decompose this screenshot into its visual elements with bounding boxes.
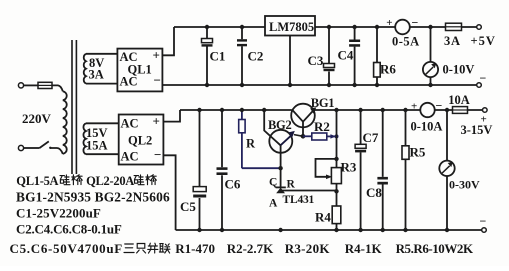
svg-text:15A: 15A bbox=[86, 139, 108, 153]
svg-text:0-30V: 0-30V bbox=[449, 178, 480, 192]
svg-text:LM7805: LM7805 bbox=[269, 20, 314, 34]
svg-text:10A: 10A bbox=[448, 93, 470, 107]
svg-text:C7: C7 bbox=[363, 130, 379, 145]
ammeter A2 0-10A bbox=[420, 103, 434, 117]
wire top rail left segment bbox=[174, 26, 265, 28]
svg-text:R3-20K: R3-20K bbox=[285, 241, 331, 256]
secondary winding 15V 15A bbox=[83, 123, 86, 154]
glyph 联 (line5) bbox=[159, 244, 170, 253]
wire QL2 - drop bbox=[163, 155, 175, 230]
svg-text:0-10V: 0-10V bbox=[443, 63, 475, 77]
transistor BG2 bbox=[269, 130, 292, 153]
wire LM7805 GND pin bbox=[289, 36, 291, 86]
potentiometer R3 bbox=[331, 168, 341, 184]
wire QL2 + riser bbox=[163, 110, 180, 122]
wire top rail after ammeter bbox=[410, 26, 477, 28]
svg-text:3A: 3A bbox=[89, 68, 104, 82]
svg-text:C5.C6-50V4700uF: C5.C6-50V4700uF bbox=[10, 241, 123, 256]
switch K bbox=[40, 141, 49, 148]
svg-text:R1-470: R1-470 bbox=[175, 241, 215, 256]
wire QL1 + riser bbox=[162, 27, 174, 55]
svg-text:R: R bbox=[287, 179, 296, 191]
output terminal 0V (5V section) bbox=[477, 83, 482, 88]
bridge rectifier QL1 bbox=[117, 49, 162, 92]
wire top rail (15V section) bbox=[180, 109, 292, 111]
svg-text:+: + bbox=[153, 114, 160, 129]
svg-text:0-10A: 0-10A bbox=[411, 120, 443, 134]
svg-text:3A: 3A bbox=[444, 34, 461, 48]
svg-text:AC: AC bbox=[121, 117, 139, 131]
wire bottom rail (5V section) bbox=[162, 84, 476, 86]
transistor BG1 bbox=[291, 104, 315, 128]
notes text block bbox=[10, 174, 474, 256]
svg-text:A: A bbox=[269, 198, 278, 210]
svg-text:+: + bbox=[386, 17, 392, 29]
resistor R1 bbox=[241, 110, 243, 168]
svg-text:AC: AC bbox=[121, 150, 139, 164]
wire divider vertical bbox=[336, 110, 338, 230]
svg-text:C2: C2 bbox=[248, 49, 264, 64]
glyph 硅 (line1 a) bbox=[60, 175, 70, 185]
voltmeter V2 0-30V bbox=[446, 110, 448, 230]
resistor R6 bbox=[376, 27, 378, 85]
svg-text:−: − bbox=[480, 71, 487, 85]
capacitor C8 bbox=[382, 110, 384, 230]
svg-text:R5.R6-10W2K: R5.R6-10W2K bbox=[396, 241, 474, 256]
wire top rail right segment bbox=[315, 26, 395, 28]
fuse FU (mains) bbox=[38, 82, 52, 88]
svg-text:TL431: TL431 bbox=[283, 194, 315, 206]
svg-text:BG1: BG1 bbox=[311, 96, 334, 110]
wire bbox=[52, 85, 63, 91]
220V input terminal top bbox=[18, 83, 23, 88]
capacitor C1 bbox=[206, 27, 208, 85]
wire bottom rail (15V section) bbox=[176, 229, 482, 231]
svg-text:+: + bbox=[411, 101, 417, 113]
secondary winding 8V 3A bbox=[84, 54, 86, 84]
glyph 并 (line5) bbox=[148, 243, 158, 253]
svg-text:+: + bbox=[153, 48, 160, 63]
svg-text:R5: R5 bbox=[410, 145, 426, 160]
wire BG2 base down to TL431 bbox=[280, 145, 282, 187]
wire TL431 R pin bbox=[281, 190, 337, 192]
bridge rectifier QL2 bbox=[119, 115, 164, 165]
svg-text:R2: R2 bbox=[314, 119, 330, 134]
fuse 10A bbox=[453, 107, 468, 114]
svg-text:R3: R3 bbox=[341, 160, 357, 175]
svg-text:C4: C4 bbox=[338, 48, 354, 63]
svg-text:R: R bbox=[246, 137, 256, 151]
glyph 桥 (line1 b) bbox=[146, 175, 157, 185]
capacitor C4 bbox=[354, 27, 356, 85]
svg-text:QL2: QL2 bbox=[128, 134, 152, 148]
svg-text:220V: 220V bbox=[22, 111, 52, 126]
ammeter A1 0-5A bbox=[395, 20, 410, 35]
glyph 只 (line5) bbox=[137, 244, 146, 254]
wire BG1 base bbox=[302, 122, 304, 137]
svg-text:R4-1K: R4-1K bbox=[345, 241, 383, 256]
voltmeter V1 0-10V bbox=[430, 27, 432, 85]
output terminal +5V bbox=[477, 25, 482, 30]
fuse 3A bbox=[446, 23, 462, 30]
resistor R4 bbox=[332, 206, 341, 224]
resistor R2 bbox=[303, 135, 312, 137]
capacitor C2 bbox=[241, 27, 243, 85]
capacitor C3 bbox=[328, 27, 330, 85]
output terminal 3-15V + bbox=[483, 108, 488, 113]
CJK glyphs drawn as strokes bbox=[60, 175, 170, 253]
svg-text:C8: C8 bbox=[366, 185, 382, 200]
svg-text:−: − bbox=[154, 73, 161, 88]
svg-text:C2.C4.C6.C8-0.1uF: C2.C4.C6.C8-0.1uF bbox=[16, 222, 122, 237]
svg-text:+5V: +5V bbox=[471, 34, 496, 48]
svg-text:C1: C1 bbox=[210, 49, 226, 64]
resistor R5 bbox=[405, 110, 407, 230]
transformer core bbox=[71, 40, 73, 174]
glyph 硅 (line1 b) bbox=[134, 175, 144, 185]
svg-text:C3: C3 bbox=[308, 53, 324, 68]
svg-text:−: − bbox=[154, 147, 161, 162]
svg-text:C1-25V2200uF: C1-25V2200uF bbox=[16, 206, 101, 221]
output terminal 3-15V - bbox=[482, 228, 487, 233]
svg-text:C: C bbox=[269, 177, 277, 189]
TL431 U2 bbox=[276, 186, 286, 188]
svg-text:−: − bbox=[436, 98, 443, 112]
capacitor C7 bbox=[360, 110, 362, 230]
regulator U1 LM7805 bbox=[265, 16, 315, 36]
svg-text:R6: R6 bbox=[380, 62, 396, 77]
wire bbox=[50, 148, 63, 154]
svg-text:−: − bbox=[412, 16, 419, 30]
transformer primary winding bbox=[63, 91, 67, 154]
svg-text:C5: C5 bbox=[180, 199, 196, 214]
wire bbox=[24, 84, 38, 86]
svg-text:3-15V: 3-15V bbox=[461, 123, 493, 137]
glyph 桥 (line1 a) bbox=[72, 175, 83, 185]
glyph 三 (line5) bbox=[124, 244, 134, 253]
svg-text:BG2: BG2 bbox=[268, 118, 291, 132]
svg-text:−: − bbox=[480, 214, 487, 228]
svg-text:QL2-20A: QL2-20A bbox=[86, 174, 134, 188]
capacitor C6 bbox=[221, 110, 223, 230]
svg-text:R4: R4 bbox=[315, 210, 331, 225]
capacitor C5 bbox=[199, 110, 201, 230]
wire bbox=[24, 147, 40, 149]
svg-text:BG1-2N5935 BG2-2N5606: BG1-2N5935 BG2-2N5606 bbox=[16, 190, 170, 205]
svg-text:QL1-5A: QL1-5A bbox=[16, 174, 58, 188]
svg-text:R2-2.7K: R2-2.7K bbox=[227, 241, 274, 256]
svg-text:0-5A: 0-5A bbox=[392, 35, 420, 49]
svg-text:C6: C6 bbox=[225, 177, 241, 192]
220V input terminal bottom bbox=[18, 145, 23, 150]
svg-text:AC: AC bbox=[120, 75, 138, 89]
